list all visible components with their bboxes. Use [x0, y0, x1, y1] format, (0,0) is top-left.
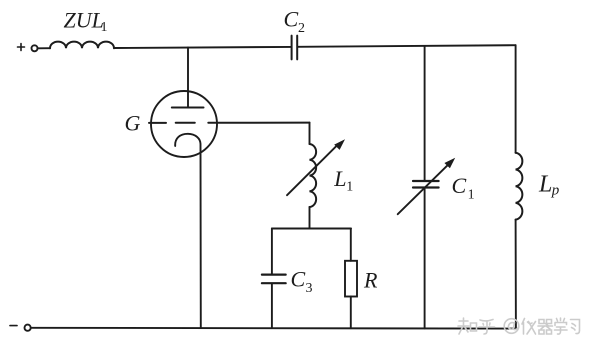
svg-text:C: C — [284, 7, 299, 32]
svg-text:L: L — [538, 172, 552, 198]
svg-text:L: L — [333, 166, 346, 191]
svg-text:3: 3 — [306, 281, 313, 296]
svg-text:1: 1 — [468, 188, 475, 203]
svg-text:G: G — [125, 111, 141, 136]
svg-text:p: p — [551, 183, 560, 199]
svg-text:C: C — [291, 267, 306, 292]
svg-text:2: 2 — [298, 21, 305, 36]
svg-text:1: 1 — [346, 179, 353, 194]
svg-text:ZUL: ZUL — [64, 8, 104, 33]
svg-text:1: 1 — [101, 20, 108, 35]
svg-text:C: C — [452, 173, 467, 198]
svg-text:R: R — [363, 267, 378, 292]
